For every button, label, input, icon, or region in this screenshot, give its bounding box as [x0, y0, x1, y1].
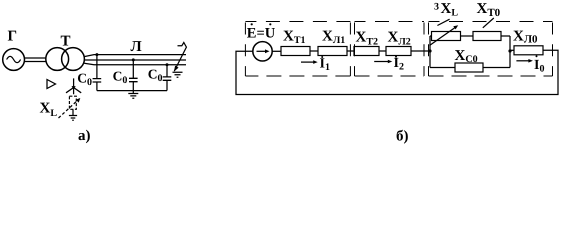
reactor XL dashed rectangle [69, 96, 76, 109]
wire XT1 to XL1 [310, 50, 318, 52]
current I0 arrow [516, 60, 529, 62]
wire left rail [429, 36, 431, 68]
resistor XT1 [281, 47, 310, 56]
wire tap 1 [96, 55, 98, 79]
resistor XL0 (zero seq line) [514, 46, 543, 55]
node right junction [508, 49, 511, 52]
capacitor C0 #3 [163, 77, 172, 80]
star winding symbol with neutral [66, 78, 81, 94]
current I1 arrow [301, 61, 315, 63]
generator G circle [3, 49, 25, 71]
ground under tap 2 [128, 91, 138, 99]
wire XT0 to right rail [501, 35, 510, 37]
dot over E [251, 23, 253, 25]
svg-text:Т: Т [61, 34, 71, 50]
EMF source circle [253, 42, 272, 61]
resistor XT0 [473, 32, 501, 41]
wire 3XL to XT0 [461, 35, 474, 37]
node left junction [428, 49, 431, 52]
wire XT2 to XL2 [379, 50, 386, 52]
variable arrow through 3XL [430, 27, 456, 45]
transformer winding circle 1 [46, 48, 69, 71]
current I2 arrow [374, 61, 389, 63]
wire double-line generator to transformer [25, 58, 46, 62]
wire source loop left and bottom return [236, 50, 558, 94]
capacitor C0 #1 [93, 79, 102, 82]
fault ground [173, 72, 183, 77]
dashed box section 2 [355, 22, 425, 77]
dot over I2 [395, 56, 397, 58]
variable arrow through reactor (dashed) [59, 100, 78, 118]
fault arrowhead [174, 66, 179, 72]
wire bottom branch right [483, 67, 510, 69]
wire tap 1 lower [96, 82, 98, 91]
EMF source arrow [257, 50, 267, 52]
wire capacitor common bottom [97, 90, 167, 92]
dashed box section 1 [245, 22, 350, 77]
slash over dashed edge above XT0 [483, 18, 494, 28]
node tap 2 junction [132, 58, 135, 61]
resistor XL1 (line 1) [318, 47, 347, 56]
delta winding symbol [47, 80, 56, 89]
wire right rail [509, 36, 511, 68]
resistor XT2 [354, 47, 379, 56]
reactor 3XL rectangle [432, 32, 461, 41]
fault lightning arrow [174, 43, 186, 72]
ground under reactor [69, 116, 77, 121]
svg-text:Л: Л [131, 39, 142, 55]
dot over I0 [536, 55, 538, 57]
svg-text:а): а) [78, 128, 91, 144]
svg-text:E=U: E=U [247, 26, 276, 42]
resistor XL2 (line 2) [386, 47, 411, 56]
node tap 1 junction [95, 53, 98, 56]
wire to 3XL [430, 35, 432, 37]
generator sine symbol [7, 56, 21, 62]
node tap 3 junction [166, 63, 169, 66]
dot over I1 [321, 56, 323, 58]
variable arrowhead [76, 98, 81, 103]
wire source to XT1 [272, 50, 281, 52]
wire phase line 1 [84, 55, 186, 57]
svg-text:Г: Г [8, 29, 18, 45]
wire phase line 3 [84, 63, 186, 65]
wire XL2 to node [411, 50, 430, 52]
wire tap 2 [132, 60, 134, 78]
dashed box section 3 [429, 22, 553, 77]
wire reactor to ground [72, 109, 74, 115]
slash over dashed edge above 3XL [437, 19, 449, 25]
wire tap 2 lower [132, 82, 134, 91]
wire XL1 to XT2 [347, 50, 354, 52]
transformer winding circle 2 [62, 48, 85, 71]
svg-text:3: 3 [434, 2, 439, 13]
dot over U [269, 23, 271, 25]
wire bottom branch left [430, 67, 455, 69]
wire tap 3 [166, 65, 168, 77]
wire node to XL0 [510, 49, 514, 51]
wire phase line 2 [84, 59, 186, 61]
capacitance XC0 rectangle [455, 63, 483, 72]
wire tap 3 lower [166, 80, 168, 90]
capacitor C0 #2 [129, 78, 138, 81]
svg-text:б): б) [396, 129, 409, 145]
